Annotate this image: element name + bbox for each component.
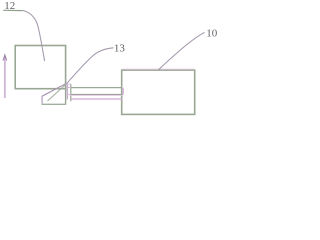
rod bottom line <box>71 94 122 96</box>
post top edge <box>66 83 71 85</box>
rod end cap (pink, inside box 10) <box>122 88 124 95</box>
svg-text:10: 10 <box>206 28 218 40</box>
wedge 13 (prism right edge vertical, extension of box 12 right side) <box>65 89 67 105</box>
leader line for label 12 <box>23 10 45 61</box>
box 10 (right rectangle component) <box>122 70 195 114</box>
box 12 (left square component) <box>15 46 65 89</box>
leader line for label 10 <box>159 32 205 70</box>
post inner purple vertical <box>66 84 68 100</box>
leader line for label 13 <box>67 48 114 84</box>
rod top line <box>71 87 122 89</box>
rod lower purple line <box>71 98 122 100</box>
svg-text:13: 13 <box>114 43 126 55</box>
arrow (up direction indicator) <box>3 55 7 98</box>
post pink horizontals <box>67 87 71 89</box>
label 12 underline <box>3 9 22 11</box>
wedge 13 hypotenuse <box>42 83 67 96</box>
wedge 13 bottom edge <box>42 103 67 105</box>
pink fringe above box 10 top edge <box>123 68 195 70</box>
post right green vertical <box>70 84 72 101</box>
wedge 13 left edge <box>41 96 43 105</box>
wedge 13 inner diagonal <box>48 85 66 101</box>
rod bottom pink fringe <box>71 95 122 97</box>
